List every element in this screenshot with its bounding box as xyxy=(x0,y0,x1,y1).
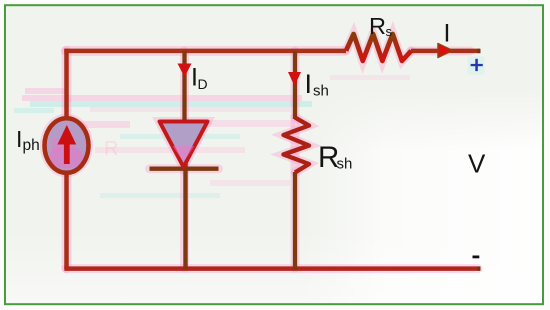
svg-text:sh: sh xyxy=(337,156,353,173)
svg-text:I: I xyxy=(305,69,313,99)
svg-text:sh: sh xyxy=(313,83,329,100)
svg-text:ph: ph xyxy=(23,137,40,154)
svg-text:D: D xyxy=(198,76,208,92)
svg-text:R: R xyxy=(369,13,386,39)
svg-text:V: V xyxy=(468,149,486,179)
svg-text:R: R xyxy=(104,138,118,160)
svg-text:s: s xyxy=(386,24,393,39)
svg-text:I: I xyxy=(444,20,451,48)
svg-text:I: I xyxy=(16,126,22,152)
